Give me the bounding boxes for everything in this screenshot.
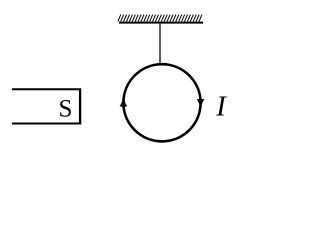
ceiling bar bbox=[119, 22, 203, 24]
arrowhead left (current up) bbox=[120, 99, 128, 107]
ceiling hatching bbox=[118, 15, 202, 22]
arrowhead right (current down) bbox=[197, 99, 205, 107]
magnet top edge bbox=[12, 88, 80, 90]
svg-text:S: S bbox=[59, 96, 73, 123]
current loop bbox=[123, 64, 200, 141]
magnet bottom edge bbox=[12, 123, 80, 125]
magnet right edge bbox=[79, 88, 81, 124]
string bbox=[159, 24, 161, 66]
svg-text:I: I bbox=[215, 91, 227, 122]
